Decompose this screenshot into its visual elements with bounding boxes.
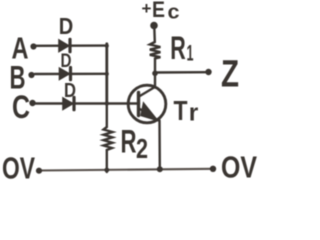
wire +Ec to R1 <box>153 27 156 42</box>
junction bus/B <box>105 72 109 76</box>
bus wire joining diode cathodes <box>105 44 108 104</box>
svg-text:r: r <box>189 100 199 127</box>
junction collector node <box>152 71 158 77</box>
svg-text:Z: Z <box>221 54 239 96</box>
svg-text:C: C <box>12 89 30 125</box>
label Tr <box>174 95 199 127</box>
input terminal A <box>30 43 36 49</box>
wire A input to bus <box>35 44 105 47</box>
junction bus/C (base node) <box>105 101 109 105</box>
diode D (input A) <box>59 39 70 51</box>
svg-text:1: 1 <box>187 41 194 66</box>
svg-text:T: T <box>174 95 188 126</box>
svg-text:OV: OV <box>221 150 257 185</box>
transistor Tr <box>128 73 166 170</box>
svg-text:D: D <box>61 51 72 72</box>
power +Ec label <box>142 0 180 24</box>
junction rail/R2 <box>104 168 109 173</box>
svg-text:c: c <box>168 2 180 24</box>
wire C input through bus to transistor base <box>35 102 139 104</box>
svg-text:OV: OV <box>2 151 35 185</box>
wire collector node to Z terminal <box>155 71 206 74</box>
svg-text:R: R <box>170 30 186 66</box>
terminal 0V left <box>36 168 42 174</box>
label R1 <box>170 30 193 66</box>
diode D (input C) <box>63 97 74 109</box>
svg-text:D: D <box>59 13 74 39</box>
diode D (input B) <box>60 68 71 80</box>
wire B input to bus <box>35 73 105 76</box>
svg-text:2: 2 <box>136 133 148 164</box>
power terminal +Ec <box>150 22 158 30</box>
terminal 0V right <box>210 166 216 172</box>
svg-text:D: D <box>64 80 76 102</box>
resistor R1 <box>150 42 161 73</box>
ground rail 0V <box>39 169 213 171</box>
junction bus/A <box>105 44 109 48</box>
input terminal B <box>28 72 34 78</box>
svg-text:R: R <box>121 124 137 160</box>
svg-text:E: E <box>152 0 165 22</box>
input terminal C <box>29 100 35 106</box>
svg-text:+: + <box>142 0 152 18</box>
resistor R2 <box>104 104 113 172</box>
output terminal Z <box>205 69 211 75</box>
label R2 <box>121 124 149 165</box>
junction rail/emitter <box>157 166 163 172</box>
